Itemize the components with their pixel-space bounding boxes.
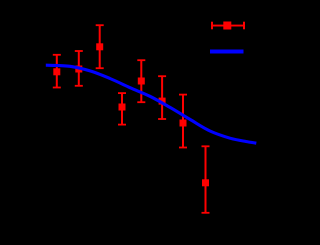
legend data symbol: [211, 22, 245, 30]
data point P8: [202, 145, 210, 213]
data point P3: [96, 24, 104, 69]
data point P4: [118, 92, 126, 125]
data point P2: [75, 50, 83, 87]
legend curve symbol: [210, 50, 244, 54]
data point P1: [53, 54, 61, 89]
fit curve: [46, 65, 256, 143]
data point P5: [137, 59, 145, 103]
data point P6: [158, 75, 166, 120]
data point P7: [179, 94, 187, 149]
